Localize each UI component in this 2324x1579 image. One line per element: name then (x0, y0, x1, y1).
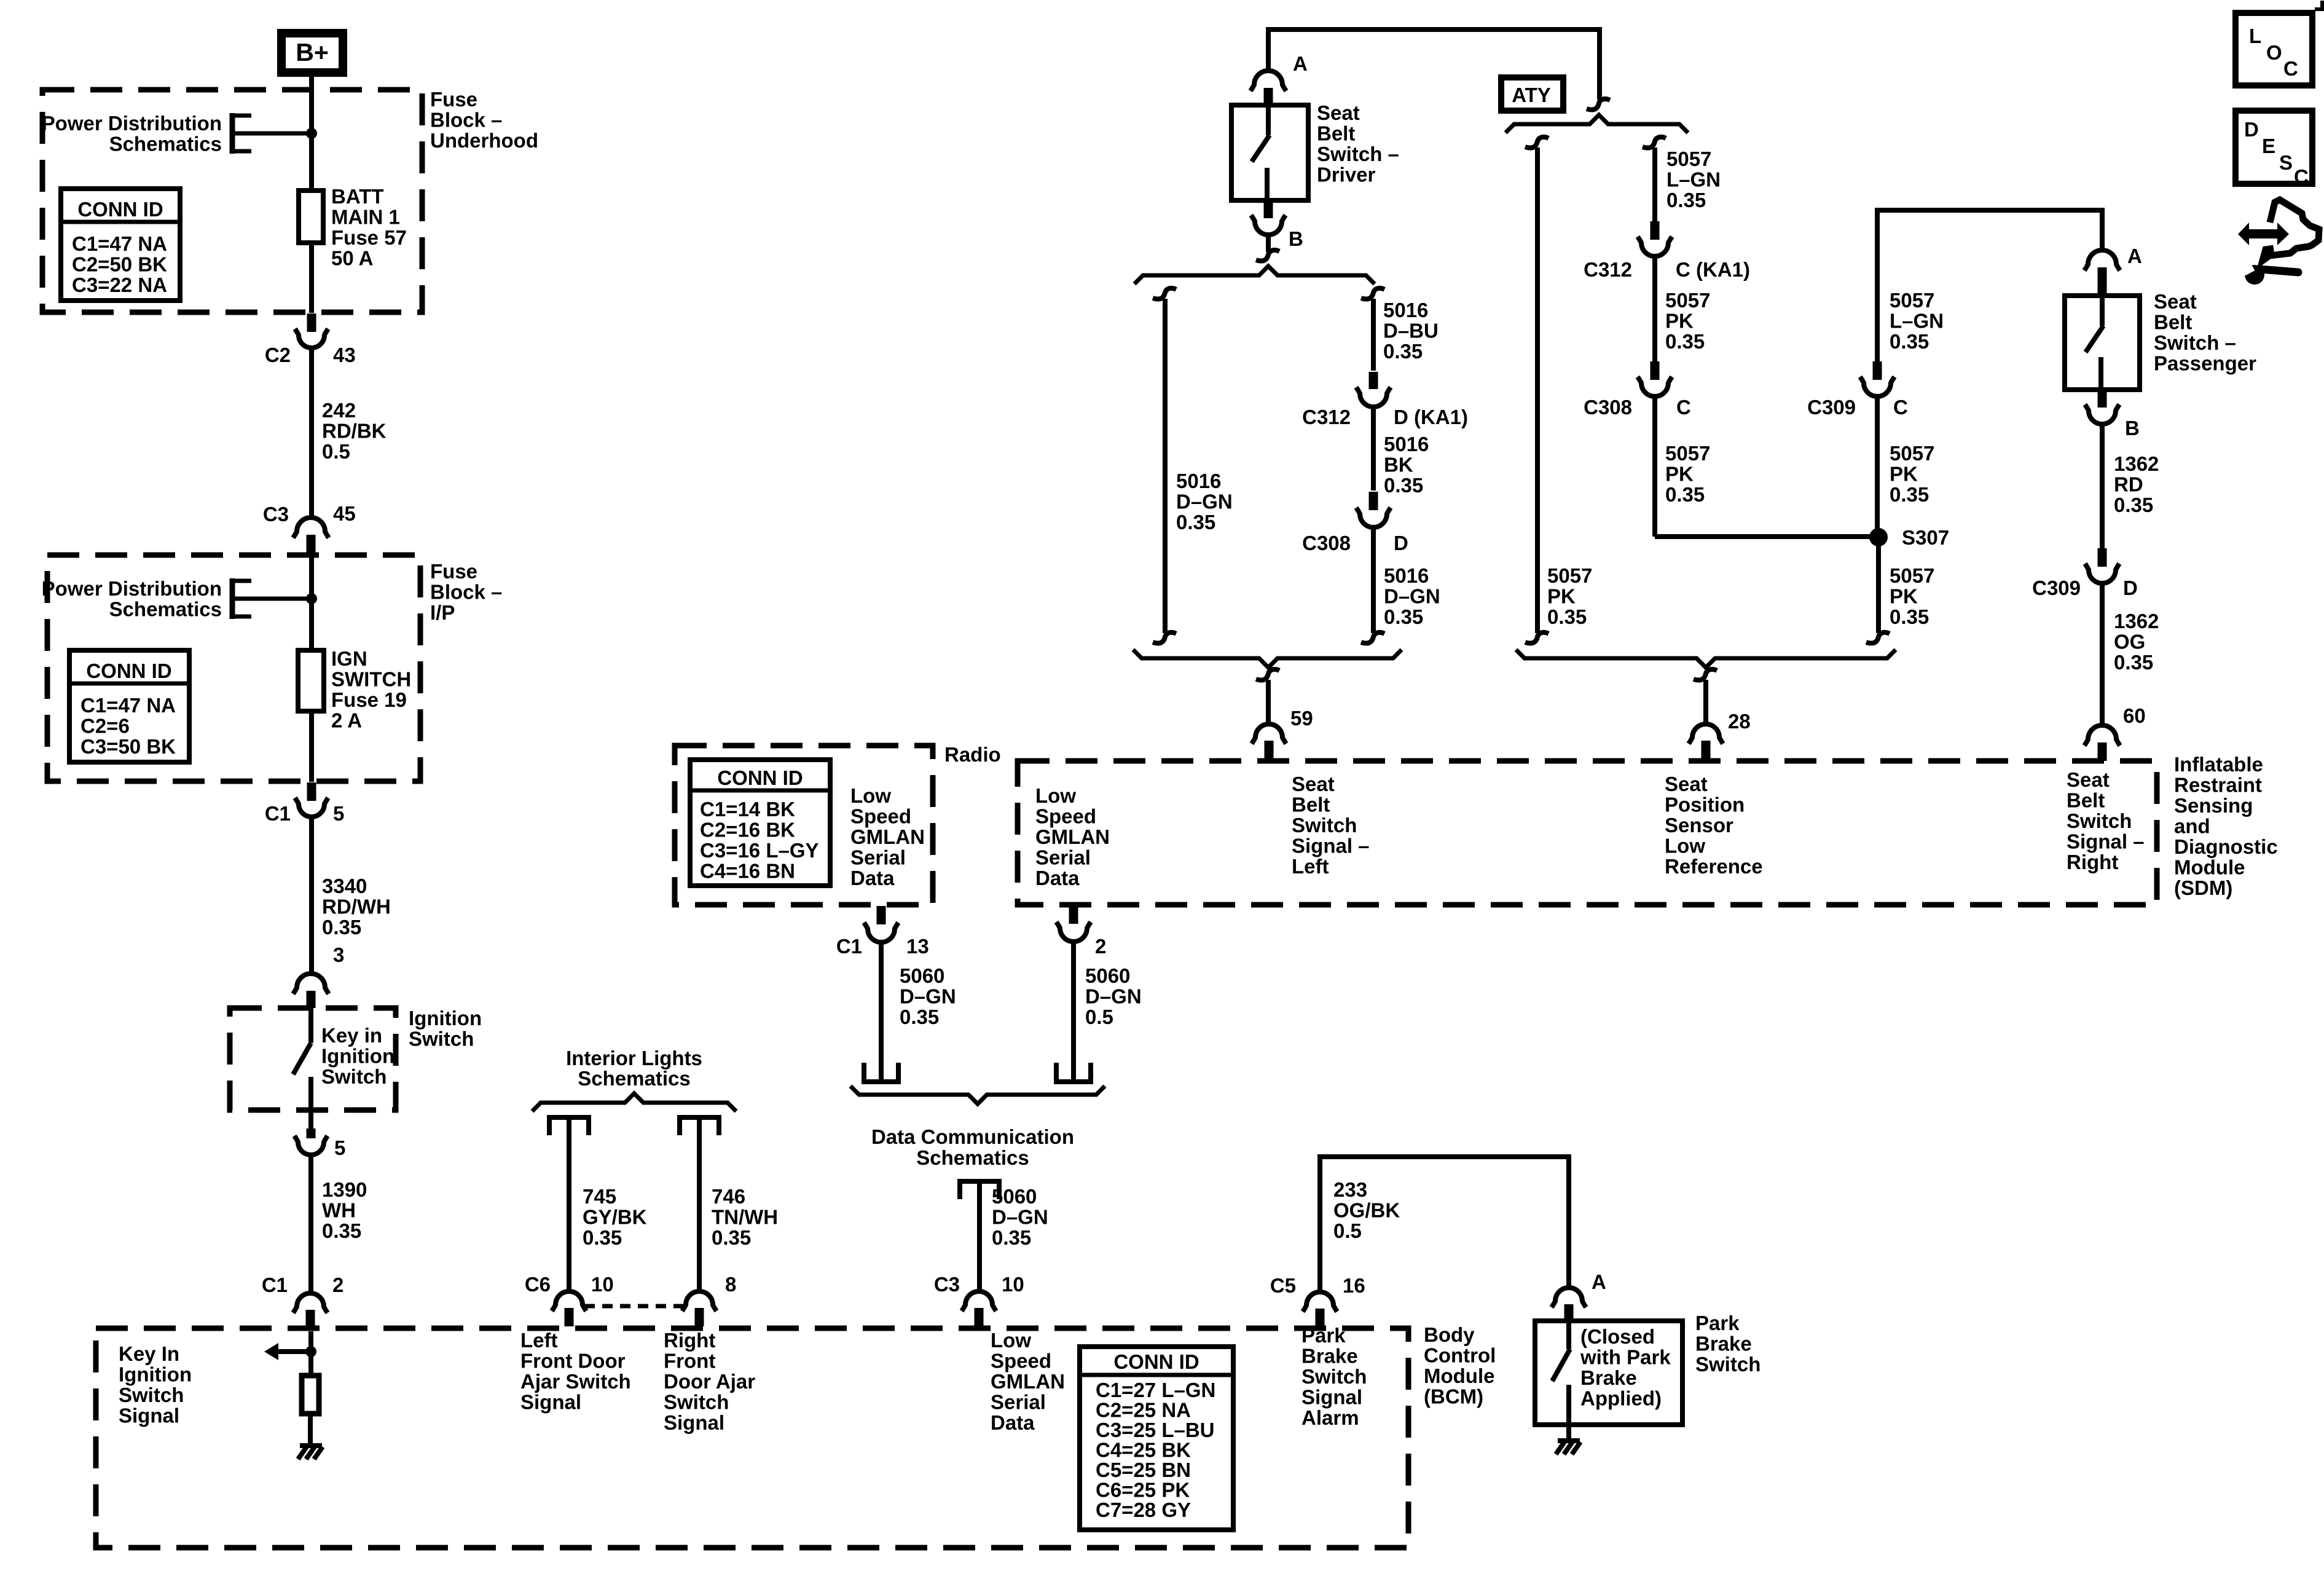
svg-text:GMLAN: GMLAN (850, 825, 925, 848)
svg-text:Switch: Switch (2067, 809, 2132, 832)
svg-text:C2=25 NA: C2=25 NA (1096, 1399, 1191, 1422)
svg-text:Block –: Block – (430, 109, 502, 132)
svg-text:5: 5 (334, 1136, 345, 1159)
svg-text:Data Communication: Data Communication (871, 1125, 1074, 1148)
svg-text:45: 45 (333, 502, 356, 525)
svg-text:D–GN: D–GN (900, 985, 956, 1008)
svg-text:MAIN 1: MAIN 1 (331, 206, 400, 229)
svg-text:Seat: Seat (1665, 773, 1708, 795)
svg-text:0.35: 0.35 (1384, 605, 1423, 628)
svg-text:Park: Park (1301, 1324, 1346, 1347)
svg-text:Interior Lights: Interior Lights (566, 1047, 702, 1069)
svg-text:0.35: 0.35 (1384, 474, 1423, 497)
svg-text:Data: Data (1035, 867, 1080, 889)
svg-text:with Park: with Park (1580, 1346, 1671, 1369)
svg-text:Switch: Switch (1695, 1353, 1761, 1376)
svg-text:OG/BK: OG/BK (1333, 1199, 1400, 1222)
svg-text:C1=47 NA: C1=47 NA (80, 694, 176, 717)
svg-text:Control: Control (1424, 1344, 1496, 1367)
svg-text:CONN ID: CONN ID (77, 198, 163, 221)
svg-text:28: 28 (1728, 710, 1751, 733)
svg-text:Block –: Block – (430, 581, 502, 604)
svg-text:Front Door: Front Door (520, 1350, 626, 1372)
svg-text:C5=25 BN: C5=25 BN (1096, 1459, 1191, 1481)
svg-text:0.35: 0.35 (1176, 511, 1215, 534)
svg-text:0.35: 0.35 (1547, 605, 1587, 628)
svg-text:Belt: Belt (2067, 789, 2105, 812)
svg-text:Data: Data (991, 1411, 1035, 1434)
svg-text:S307: S307 (1902, 526, 1949, 549)
svg-text:C7=28 GY: C7=28 GY (1096, 1498, 1191, 1521)
svg-text:Diagnostic: Diagnostic (2174, 835, 2278, 858)
svg-text:Speed: Speed (850, 805, 911, 828)
svg-text:Signal: Signal (1301, 1386, 1362, 1409)
svg-text:Brake: Brake (1695, 1333, 1752, 1355)
svg-text:Low: Low (991, 1329, 1031, 1352)
svg-text:Ignition: Ignition (409, 1007, 482, 1030)
svg-text:Power Distribution: Power Distribution (42, 577, 222, 600)
svg-text:Left: Left (520, 1329, 558, 1352)
svg-text:745: 745 (583, 1185, 616, 1208)
svg-text:S: S (2279, 151, 2293, 174)
svg-text:OG: OG (2114, 631, 2145, 653)
svg-text:C3=50 BK: C3=50 BK (80, 735, 176, 758)
svg-text:A: A (2127, 245, 2142, 267)
svg-text:2: 2 (332, 1274, 343, 1296)
svg-text:C1=47 NA: C1=47 NA (72, 232, 167, 255)
svg-text:Door Ajar: Door Ajar (664, 1370, 755, 1393)
svg-text:5016: 5016 (1383, 299, 1428, 321)
svg-text:Signal –: Signal – (1292, 835, 1370, 857)
svg-text:C: C (2283, 57, 2298, 80)
svg-text:0.35: 0.35 (1666, 189, 1706, 211)
svg-text:Seat: Seat (2154, 290, 2197, 313)
svg-text:C5: C5 (1270, 1274, 1296, 1297)
svg-text:3340: 3340 (322, 875, 367, 897)
svg-text:16: 16 (1343, 1274, 1365, 1297)
svg-text:PK: PK (1665, 463, 1694, 486)
svg-text:Fuse 57: Fuse 57 (331, 226, 407, 249)
svg-text:Left: Left (1292, 855, 1329, 878)
svg-text:C4=16 BN: C4=16 BN (700, 860, 795, 883)
svg-text:RD/BK: RD/BK (322, 420, 387, 443)
svg-text:Right: Right (664, 1329, 715, 1352)
svg-text:D: D (1394, 532, 1408, 554)
svg-text:Applied): Applied) (1580, 1387, 1662, 1410)
svg-text:Fuse 19: Fuse 19 (331, 688, 407, 711)
svg-text:B+: B+ (296, 38, 329, 66)
svg-text:Belt: Belt (1317, 122, 1355, 145)
svg-text:C1: C1 (262, 1274, 288, 1296)
svg-text:60: 60 (2123, 704, 2146, 727)
svg-text:Passenger: Passenger (2154, 352, 2256, 375)
svg-text:0.35: 0.35 (1665, 330, 1705, 353)
svg-text:Right: Right (2067, 851, 2118, 873)
svg-text:GY/BK: GY/BK (583, 1206, 647, 1229)
svg-text:Module: Module (1424, 1364, 1494, 1387)
svg-text:Low: Low (1035, 784, 1076, 807)
svg-text:Serial: Serial (1035, 846, 1091, 869)
svg-text:0.35: 0.35 (1890, 605, 1929, 628)
svg-text:8: 8 (725, 1273, 736, 1296)
svg-text:IGN: IGN (331, 647, 367, 670)
svg-text:PK: PK (1665, 310, 1694, 333)
svg-text:PK: PK (1890, 585, 1918, 608)
svg-text:Switch: Switch (321, 1065, 387, 1088)
svg-text:D: D (2244, 118, 2259, 141)
svg-text:1362: 1362 (2114, 452, 2159, 475)
svg-text:0.35: 0.35 (2114, 651, 2153, 674)
svg-text:C1=27 L–GN: C1=27 L–GN (1096, 1379, 1215, 1401)
svg-text:Switch –: Switch – (2154, 331, 2236, 354)
svg-text:C3=25 L–BU: C3=25 L–BU (1096, 1419, 1215, 1441)
svg-text:Alarm: Alarm (1301, 1406, 1359, 1429)
svg-text:Switch: Switch (119, 1384, 184, 1406)
svg-text:Data: Data (850, 867, 895, 889)
svg-text:5: 5 (333, 802, 344, 825)
svg-text:D–GN: D–GN (1384, 585, 1440, 608)
svg-text:0.35: 0.35 (1383, 340, 1423, 363)
svg-text:Schematics: Schematics (578, 1067, 690, 1090)
svg-text:Switch: Switch (1292, 814, 1357, 837)
svg-text:0.35: 0.35 (1665, 483, 1705, 506)
svg-text:Brake: Brake (1301, 1345, 1358, 1368)
svg-text:C309: C309 (1807, 396, 1856, 419)
svg-text:Belt: Belt (1292, 793, 1330, 816)
svg-text:Switch: Switch (664, 1391, 729, 1414)
svg-text:1390: 1390 (322, 1178, 367, 1201)
svg-text:C309: C309 (2032, 577, 2081, 599)
svg-text:ATY: ATY (1512, 84, 1551, 106)
svg-text:Sensor: Sensor (1665, 814, 1733, 837)
svg-text:0.35: 0.35 (900, 1006, 939, 1028)
svg-text:Power Distribution: Power Distribution (42, 112, 222, 135)
svg-text:Signal –: Signal – (2067, 830, 2145, 853)
svg-text:C2=50 BK: C2=50 BK (72, 253, 167, 276)
svg-text:0.35: 0.35 (2114, 494, 2153, 516)
svg-text:5016: 5016 (1176, 470, 1221, 492)
svg-text:Front: Front (664, 1350, 715, 1372)
svg-text:59: 59 (1290, 707, 1313, 730)
svg-text:0.5: 0.5 (1085, 1006, 1113, 1028)
svg-text:Park: Park (1695, 1312, 1740, 1334)
svg-text:Signal: Signal (119, 1404, 179, 1427)
svg-text:C: C (1893, 396, 1908, 419)
svg-text:0.5: 0.5 (322, 440, 350, 463)
svg-text:C2=16 BK: C2=16 BK (700, 819, 795, 841)
svg-text:L: L (2249, 25, 2261, 47)
svg-text:CONN ID: CONN ID (86, 660, 171, 682)
svg-text:Seat: Seat (1317, 101, 1360, 124)
svg-text:Driver: Driver (1317, 163, 1376, 186)
svg-text:C1=14 BK: C1=14 BK (700, 798, 795, 821)
svg-text:C1: C1 (265, 802, 291, 825)
svg-text:5057: 5057 (1665, 289, 1710, 312)
svg-text:3: 3 (333, 943, 344, 966)
svg-text:5060: 5060 (992, 1185, 1037, 1208)
svg-text:Seat: Seat (1292, 773, 1335, 795)
svg-text:Serial: Serial (850, 846, 906, 869)
svg-text:L–GN: L–GN (1890, 310, 1944, 333)
svg-text:Ignition: Ignition (119, 1363, 192, 1386)
svg-text:Fuse: Fuse (430, 560, 477, 583)
svg-text:Fuse: Fuse (430, 88, 477, 111)
svg-text:D–GN: D–GN (1085, 985, 1142, 1008)
svg-text:BATT: BATT (331, 185, 384, 208)
svg-text:GMLAN: GMLAN (991, 1370, 1065, 1393)
svg-text:C3: C3 (263, 503, 289, 526)
svg-text:5060: 5060 (1085, 964, 1130, 987)
svg-text:L–GN: L–GN (1666, 168, 1721, 191)
svg-text:Key in: Key in (321, 1024, 382, 1047)
svg-text:10: 10 (1002, 1273, 1024, 1296)
svg-text:D–GN: D–GN (1176, 490, 1233, 513)
svg-text:0.35: 0.35 (712, 1226, 751, 1249)
svg-text:C312: C312 (1302, 406, 1351, 428)
svg-text:C1: C1 (836, 935, 862, 958)
svg-text:I/P: I/P (430, 601, 455, 624)
svg-text:Serial: Serial (991, 1391, 1046, 1414)
svg-text:0.35: 0.35 (322, 916, 361, 939)
svg-text:C2: C2 (265, 344, 291, 366)
svg-text:Brake: Brake (1580, 1366, 1637, 1389)
svg-text:0.35: 0.35 (1890, 483, 1929, 506)
svg-text:D–GN: D–GN (992, 1206, 1048, 1229)
svg-text:A: A (1293, 52, 1308, 75)
svg-text:BK: BK (1384, 454, 1413, 476)
svg-text:50 A: 50 A (331, 247, 373, 270)
svg-text:Switch: Switch (1301, 1365, 1367, 1388)
svg-text:C3: C3 (934, 1273, 960, 1296)
svg-text:5060: 5060 (900, 964, 944, 987)
svg-text:0.35: 0.35 (992, 1226, 1031, 1249)
svg-text:PK: PK (1547, 585, 1576, 608)
svg-text:0.5: 0.5 (1333, 1219, 1362, 1242)
svg-text:B: B (1289, 227, 1303, 250)
svg-text:C2=6: C2=6 (80, 715, 130, 738)
svg-text:C4=25 BK: C4=25 BK (1096, 1439, 1191, 1462)
svg-text:E: E (2262, 135, 2275, 157)
svg-text:(Closed: (Closed (1580, 1325, 1655, 1348)
svg-text:C (KA1): C (KA1) (1676, 258, 1750, 281)
svg-text:13: 13 (906, 935, 929, 958)
svg-text:GMLAN: GMLAN (1035, 825, 1110, 848)
svg-text:A: A (1592, 1270, 1606, 1293)
svg-text:233: 233 (1333, 1178, 1367, 1201)
svg-text:Low: Low (850, 784, 891, 807)
svg-text:Inflatable: Inflatable (2174, 753, 2263, 776)
svg-text:Body: Body (1424, 1323, 1475, 1346)
svg-text:RD/WH: RD/WH (322, 896, 391, 918)
svg-text:(BCM): (BCM) (1424, 1385, 1483, 1408)
svg-text:Switch –: Switch – (1317, 143, 1399, 165)
svg-text:5057: 5057 (1666, 148, 1711, 170)
svg-text:Restraint: Restraint (2174, 774, 2262, 797)
svg-text:1362: 1362 (2114, 610, 2159, 632)
svg-text:C308: C308 (1302, 532, 1351, 554)
svg-text:Schematics: Schematics (916, 1146, 1029, 1169)
svg-text:2: 2 (1095, 935, 1106, 958)
svg-text:C6=25 PK: C6=25 PK (1096, 1479, 1190, 1502)
svg-text:43: 43 (333, 344, 356, 366)
svg-text:TN/WH: TN/WH (712, 1206, 778, 1229)
svg-text:Speed: Speed (1035, 805, 1096, 828)
svg-text:Schematics: Schematics (109, 598, 222, 621)
svg-text:5057: 5057 (1665, 442, 1710, 465)
svg-text:CONN ID: CONN ID (1113, 1350, 1199, 1373)
svg-text:D: D (2123, 577, 2138, 599)
svg-text:0.35: 0.35 (583, 1226, 622, 1249)
svg-text:O: O (2266, 41, 2282, 64)
svg-text:PK: PK (1890, 463, 1918, 486)
svg-text:Low: Low (1665, 835, 1705, 857)
svg-text:Signal: Signal (520, 1391, 581, 1414)
svg-text:WH: WH (322, 1199, 356, 1222)
svg-text:5016: 5016 (1384, 564, 1429, 587)
svg-text:5057: 5057 (1890, 442, 1934, 465)
svg-text:(SDM): (SDM) (2174, 876, 2232, 899)
svg-text:242: 242 (322, 399, 356, 422)
svg-text:CONN ID: CONN ID (717, 766, 803, 789)
svg-text:C3=16 L–GY: C3=16 L–GY (700, 839, 819, 862)
svg-text:Reference: Reference (1665, 855, 1763, 878)
svg-text:Ignition: Ignition (321, 1045, 395, 1068)
svg-text:Module: Module (2174, 856, 2245, 879)
svg-text:C: C (1676, 396, 1691, 419)
svg-text:B: B (2125, 417, 2140, 439)
svg-text:5057: 5057 (1890, 289, 1934, 312)
svg-text:5016: 5016 (1384, 433, 1429, 455)
svg-text:Key In: Key In (119, 1342, 179, 1365)
svg-text:Radio: Radio (944, 743, 1001, 766)
svg-text:Underhood: Underhood (430, 129, 538, 152)
svg-text:5057: 5057 (1547, 564, 1592, 587)
svg-text:Speed: Speed (991, 1350, 1051, 1372)
svg-text:Belt: Belt (2154, 311, 2192, 334)
svg-text:10: 10 (591, 1273, 614, 1296)
svg-text:RD: RD (2114, 473, 2143, 496)
svg-text:C3=22 NA: C3=22 NA (72, 274, 167, 296)
svg-text:C6: C6 (525, 1273, 551, 1296)
svg-text:Position: Position (1665, 793, 1745, 816)
svg-text:746: 746 (712, 1185, 745, 1208)
svg-text:Schematics: Schematics (109, 133, 222, 156)
svg-text:and: and (2174, 815, 2210, 838)
svg-text:D–BU: D–BU (1383, 320, 1439, 342)
svg-text:0.35: 0.35 (322, 1219, 361, 1242)
svg-text:D (KA1): D (KA1) (1394, 406, 1468, 428)
svg-text:Seat: Seat (2067, 768, 2110, 791)
svg-text:Ajar Switch: Ajar Switch (520, 1370, 631, 1393)
svg-text:Switch: Switch (409, 1028, 474, 1050)
svg-text:C308: C308 (1584, 396, 1632, 419)
svg-text:SWITCH: SWITCH (331, 668, 411, 691)
svg-text:C312: C312 (1584, 258, 1632, 281)
svg-text:0.35: 0.35 (1890, 330, 1929, 353)
svg-text:C: C (2294, 165, 2309, 188)
svg-text:5057: 5057 (1890, 564, 1934, 587)
svg-text:Signal: Signal (664, 1411, 724, 1434)
svg-text:Sensing: Sensing (2174, 794, 2253, 817)
svg-text:2 A: 2 A (331, 709, 362, 732)
